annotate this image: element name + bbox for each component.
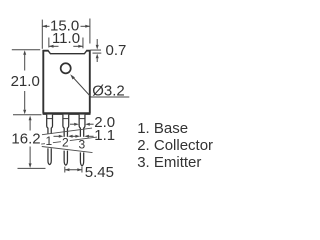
callout band bottom line	[41, 137, 97, 144]
dimension 16.2	[18, 120, 46, 169]
svg-text:1.1: 1.1	[94, 127, 115, 144]
svg-text:21.0: 21.0	[11, 73, 40, 90]
dimension 15.0	[42, 19, 90, 49]
svg-text:3. Emitter: 3. Emitter	[137, 154, 201, 171]
dimension 11.0	[49, 38, 83, 49]
lead pin 1 crossbar	[47, 118, 53, 120]
pin number callout band: white gaps over leads	[45, 134, 54, 149]
dimension 0.7	[90, 39, 101, 62]
svg-text:5.45: 5.45	[85, 164, 114, 181]
pin number underline	[42, 147, 93, 153]
lead pin 3 crossbar	[79, 118, 85, 120]
mounting hole	[61, 63, 71, 73]
lead pin 2	[63, 115, 69, 166]
svg-text:16.2: 16.2	[11, 130, 40, 147]
lead pin 3	[79, 115, 85, 166]
svg-text:0.7: 0.7	[106, 42, 127, 59]
svg-text:Ø3.2: Ø3.2	[92, 82, 125, 99]
hole diameter callout leader	[72, 76, 130, 97]
dimension 2.0 (lead width)	[70, 123, 94, 125]
leader arrowhead	[70, 74, 75, 79]
dimension 21.0	[12, 50, 42, 115]
svg-text:1. Base: 1. Base	[137, 120, 188, 137]
lead pin 1	[47, 115, 53, 165]
svg-text:11.0: 11.0	[52, 30, 80, 47]
callout band top line	[42, 128, 92, 135]
svg-text:3: 3	[78, 137, 85, 151]
lead pin 2 crossbar	[63, 118, 69, 120]
svg-text:2: 2	[62, 135, 69, 149]
dimension 1.1 (lead thickness)	[54, 135, 94, 137]
dimension 5.45	[65, 167, 82, 173]
package body outline	[43, 51, 91, 114]
svg-text:1: 1	[45, 134, 52, 148]
svg-text:2. Collector: 2. Collector	[137, 137, 213, 154]
